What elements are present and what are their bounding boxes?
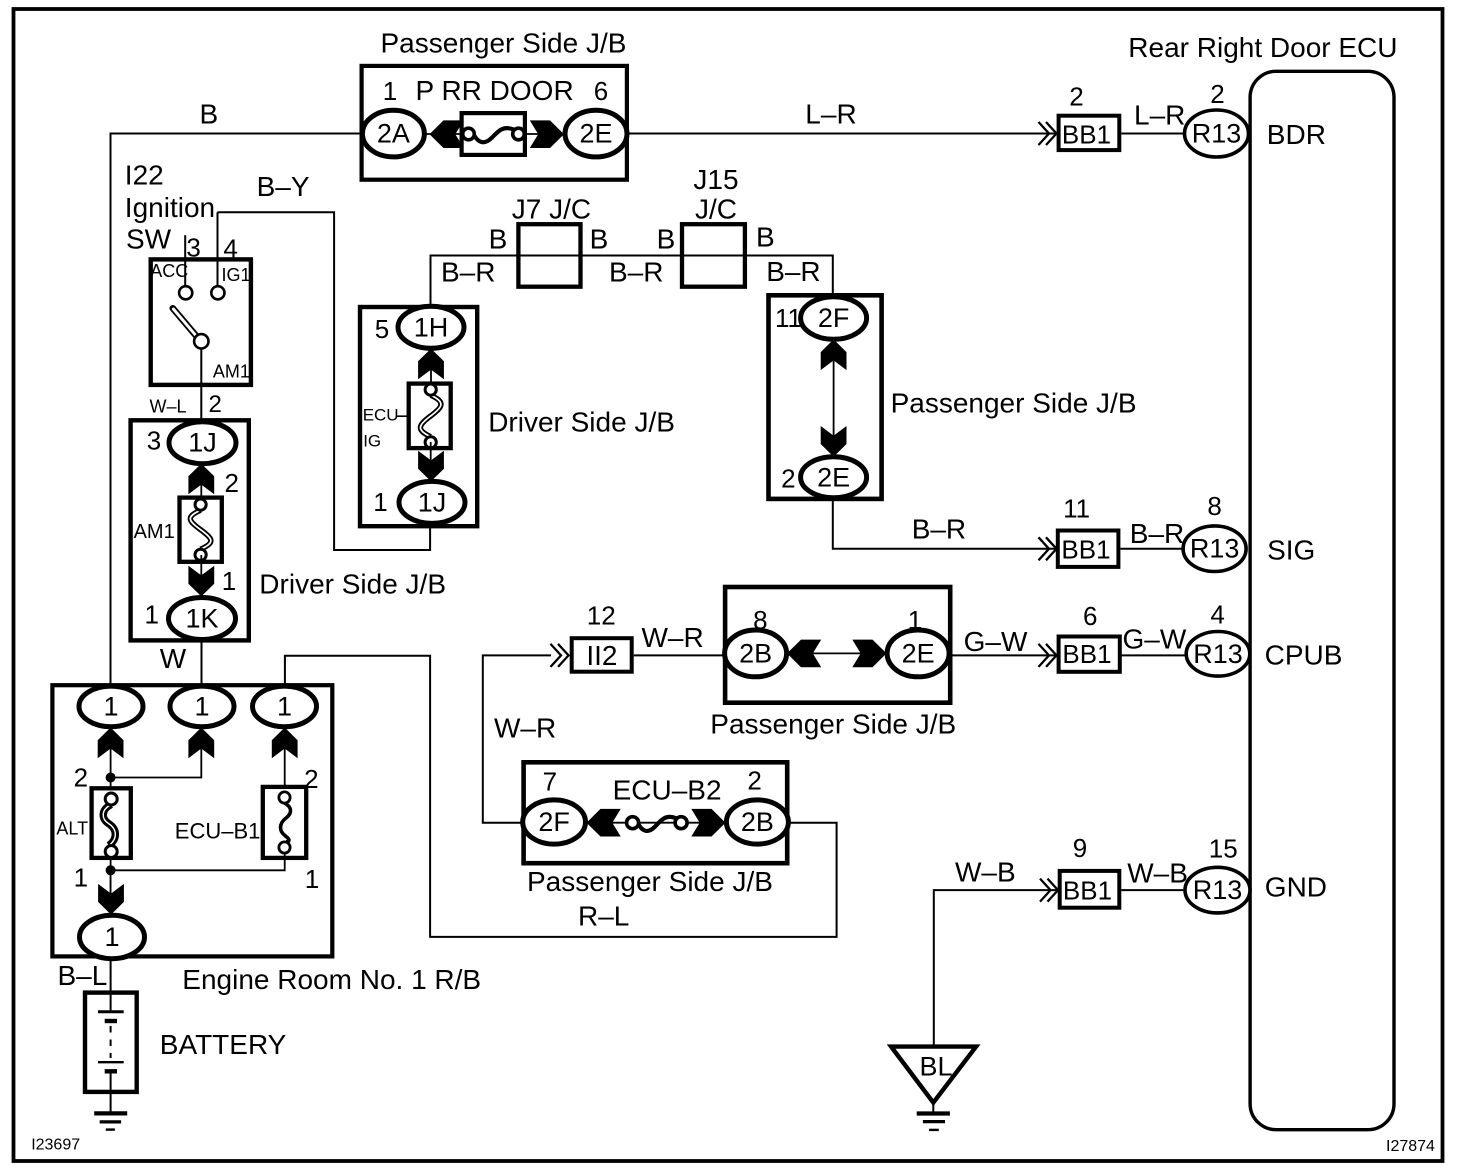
connector BB1 (GND row) [1060, 871, 1120, 908]
ground symbol (battery) [94, 1113, 127, 1129]
svg-text:B–R: B–R [766, 256, 820, 287]
svg-text:ACC: ACC [150, 261, 188, 281]
svg-text:II2: II2 [586, 640, 617, 671]
svg-text:ECU–: ECU– [363, 406, 409, 425]
svg-text:Rear Right Door ECU: Rear Right Door ECU [1128, 32, 1397, 63]
svg-text:2: 2 [209, 391, 222, 418]
wire ignition SW pin 3 stub [184, 235, 186, 286]
wire ECU-B1 bottom tap [111, 854, 285, 871]
svg-text:2E: 2E [902, 638, 935, 668]
connector 1 (battery feed) [80, 915, 145, 958]
svg-text:3: 3 [147, 426, 161, 456]
svg-text:AM1: AM1 [213, 362, 250, 382]
connector BB1 (CPUB row) [1059, 637, 1120, 672]
svg-text:IG1: IG1 [222, 265, 251, 285]
svg-text:8: 8 [1207, 491, 1221, 521]
connector R13 pin 2 (BDR) [1185, 110, 1249, 157]
svg-text:1: 1 [373, 487, 387, 517]
svg-text:2E: 2E [817, 462, 850, 492]
wire B / B-R main run (1H to J7 J/C, J15 J/C, 2F) [431, 256, 833, 307]
svg-text:W–B: W–B [955, 857, 1016, 888]
wire inside P RR DOOR fuse block [425, 133, 567, 135]
arrow to 2E (middle) [852, 640, 886, 668]
fuse P RR DOOR [462, 113, 525, 155]
connector 2E (middle) [887, 630, 949, 677]
svg-text:Ignition: Ignition [125, 192, 215, 223]
fuse ECU-IG [409, 384, 451, 449]
connector 1J (driver ECU-IG) [399, 481, 465, 523]
svg-text:11: 11 [775, 303, 802, 333]
svg-text:1J: 1J [418, 487, 447, 517]
arrow up to connector 1 (W) [188, 728, 214, 759]
svg-text:W–L: W–L [150, 396, 187, 416]
svg-text:Driver Side J/B: Driver Side J/B [259, 569, 446, 600]
svg-text:1: 1 [194, 691, 209, 721]
connector marker to BB1 pin 6 [1039, 644, 1057, 667]
svg-text:2: 2 [781, 464, 795, 494]
svg-text:BDR: BDR [1267, 119, 1326, 150]
svg-text:ECU–B1: ECU–B1 [175, 819, 261, 844]
svg-text:Passenger Side J/B: Passenger Side J/B [891, 388, 1137, 419]
arrow to 2B (ECU-B2) [691, 809, 725, 837]
wire G-W from BB1 to R13 pin 4 [1121, 654, 1185, 656]
svg-text:W: W [160, 643, 187, 674]
svg-text:G–W: G–W [964, 626, 1028, 657]
junction block Driver Side J/B (AM1) [131, 420, 249, 640]
svg-text:2: 2 [224, 468, 238, 498]
connector II2 [572, 638, 632, 672]
connector 2E (passenger vertical) [801, 457, 867, 498]
svg-text:12: 12 [587, 601, 616, 631]
wire ALT node to battery connector [110, 870, 112, 915]
svg-text:R13: R13 [1190, 534, 1240, 564]
junction block Passenger Side J/B (ECU-B2) [524, 762, 788, 863]
arrow down to 1K [188, 566, 214, 597]
svg-text:2E: 2E [579, 119, 612, 149]
svg-text:1H: 1H [414, 312, 449, 342]
connector 1H [398, 306, 464, 348]
svg-text:15: 15 [1209, 834, 1238, 864]
svg-text:Passenger Side J/B: Passenger Side J/B [710, 709, 956, 740]
svg-text:B–R: B–R [441, 257, 495, 288]
svg-text:B: B [200, 99, 219, 130]
svg-text:1: 1 [383, 76, 397, 106]
arrow up to 1J [188, 464, 214, 495]
svg-text:1: 1 [104, 922, 119, 952]
wire ignition SW pin 4 [217, 212, 219, 286]
arrow up to connector 1 (B) [98, 728, 124, 759]
svg-text:1: 1 [305, 864, 319, 894]
ignition SW pivot AM1 [194, 334, 208, 348]
arrow to 2F (ECU-B2) [587, 809, 621, 837]
wire inside Passenger Side J/B 2B-2E [787, 652, 886, 654]
connector 2E (top) [565, 110, 627, 157]
junction block Passenger Side J/B (2B-2E) [725, 587, 950, 703]
svg-text:B–Y: B–Y [257, 171, 310, 202]
svg-text:BB1: BB1 [1063, 876, 1112, 906]
arrow up to 2F [821, 339, 847, 370]
svg-text:4: 4 [1210, 600, 1224, 630]
svg-text:Engine Room No. 1 R/B: Engine Room No. 1 R/B [182, 964, 481, 995]
svg-text:2: 2 [1210, 79, 1224, 109]
wire W-L ignition AM1 to 1J [200, 349, 202, 422]
svg-text:B: B [590, 224, 609, 255]
arrow to 2B (middle) [787, 640, 821, 668]
svg-text:7: 7 [543, 767, 557, 797]
svg-text:B–R: B–R [912, 514, 966, 545]
junction connector J15 J/C [682, 224, 745, 287]
svg-text:J15: J15 [693, 164, 738, 195]
connector R13 pin 4 (CPUB) [1186, 632, 1250, 677]
wire W from 1K to Engine Room R/B [201, 640, 203, 687]
svg-text:R–L: R–L [578, 901, 629, 932]
svg-text:1J: 1J [188, 428, 217, 458]
arrow down to 1J (ECU-IG) [418, 451, 444, 482]
connector 1 (to R-L run) [253, 686, 317, 727]
wire B-Y from IG1 to Driver Side J/B 1J [218, 212, 431, 550]
wire ALT fuse top [110, 727, 112, 793]
svg-text:G–W: G–W [1123, 624, 1187, 655]
svg-text:2: 2 [1069, 81, 1083, 111]
wire W-R from II2 to 2B [634, 654, 725, 656]
wire ECU-B1 fuse top [284, 727, 286, 792]
wire W-B from BL ground to BB1 pin 9 [934, 890, 1058, 1046]
svg-text:J7 J/C: J7 J/C [512, 193, 591, 224]
wire W-R from 2F to II2 [483, 655, 551, 822]
svg-text:GND: GND [1265, 872, 1327, 903]
svg-text:1: 1 [103, 691, 118, 721]
wire B-R from 2E to BB1 pin 11 [833, 498, 1057, 549]
svg-text:J/C: J/C [695, 193, 737, 224]
connector 2F (ECU-B2) [523, 800, 586, 844]
svg-text:BL: BL [920, 1052, 953, 1082]
wire W-B from BB1 to R13 pin 15 [1121, 889, 1185, 891]
svg-text:1: 1 [222, 566, 236, 596]
svg-text:B: B [489, 224, 508, 255]
svg-text:5: 5 [375, 314, 389, 344]
svg-text:R13: R13 [1193, 875, 1243, 905]
wire fuse AM1 to 1K [200, 555, 202, 597]
svg-text:1: 1 [144, 600, 158, 630]
svg-text:B: B [756, 222, 775, 253]
svg-text:W–R: W–R [642, 622, 704, 653]
svg-text:BB1: BB1 [1062, 639, 1111, 669]
connector 2B (middle) [725, 630, 787, 677]
svg-text:B–R: B–R [1130, 518, 1184, 549]
arrow up to 1H [418, 349, 444, 380]
svg-text:BB1: BB1 [1061, 534, 1110, 564]
wire L-R from 2E to BB1 [628, 133, 1057, 135]
fuse ECU-B1 [263, 787, 306, 858]
battery [85, 993, 137, 1112]
svg-text:6: 6 [594, 76, 608, 106]
ECU body Rear Right Door ECU [1250, 71, 1394, 1129]
svg-text:Driver Side J/B: Driver Side J/B [488, 407, 675, 438]
svg-text:I22: I22 [125, 160, 164, 191]
connector marker to BB1 pin 11 [1039, 537, 1057, 560]
svg-text:SW: SW [126, 224, 172, 255]
connector R13 pin 8 (SIG) [1183, 526, 1246, 572]
svg-text:W–R: W–R [494, 713, 556, 744]
junction connector J7 J/C [518, 224, 580, 287]
ignition SW contact ACC [179, 286, 192, 299]
switch I22 Ignition SW body [151, 259, 251, 385]
svg-text:AM1: AM1 [134, 521, 175, 543]
connector 1K [169, 598, 236, 640]
junction node (ALT bottom) [106, 865, 116, 875]
svg-text:I23697: I23697 [31, 1137, 80, 1154]
svg-text:R13: R13 [1193, 639, 1243, 669]
svg-text:BATTERY: BATTERY [160, 1029, 287, 1060]
junction node (ALT top) [106, 773, 116, 783]
fuse AM1 [180, 498, 222, 562]
wire 1H to fuse ECU-IG [430, 348, 432, 390]
arrow to 2A [430, 120, 464, 148]
svg-text:B: B [657, 224, 676, 255]
svg-text:2: 2 [747, 766, 761, 796]
svg-text:Passenger Side J/B: Passenger Side J/B [527, 866, 773, 897]
connector marker to BB1 pin 2 [1039, 122, 1057, 145]
junction block Passenger Side J/B (2F-2E) [769, 295, 882, 499]
svg-text:W–B: W–B [1127, 858, 1188, 889]
fuse ALT [92, 788, 131, 858]
connector 2F (passenger) [801, 297, 867, 340]
svg-text:ALT: ALT [56, 819, 88, 839]
connector 1 (to B wire) [79, 686, 143, 727]
connector 1 (to W wire) [170, 686, 234, 727]
svg-text:2F: 2F [538, 807, 570, 837]
arrow down to 2E (passenger) [821, 426, 847, 457]
svg-text:CPUB: CPUB [1265, 640, 1343, 671]
svg-text:11: 11 [1063, 494, 1090, 524]
svg-text:IG: IG [363, 432, 381, 451]
connector 2A [362, 110, 424, 157]
svg-text:R13: R13 [1192, 119, 1242, 149]
connector BB1 (SIG row) [1058, 531, 1119, 567]
leader line ECU-IG label [396, 415, 409, 417]
ignition SW lever [173, 308, 198, 338]
fuse ECU-B2 [627, 817, 688, 831]
svg-text:I27874: I27874 [1386, 1138, 1435, 1155]
connector 2B (ECU-B2) [726, 800, 788, 844]
svg-text:L–R: L–R [1134, 100, 1185, 131]
svg-text:P RR DOOR: P RR DOOR [416, 75, 574, 106]
connector BB1 (BDR row) [1059, 116, 1120, 150]
connector 1J (driver AM1) [169, 422, 236, 464]
connector marker to BB1 pin 9 [1040, 879, 1058, 902]
wire feed Engine Room to 2B (R-L run) [285, 656, 837, 937]
svg-text:6: 6 [1083, 601, 1097, 631]
svg-text:1K: 1K [185, 604, 218, 634]
wire inside Passenger Side J/B ECU-B2 [586, 822, 727, 824]
wire G-W from 2E to BB1 pin 6 [949, 654, 1057, 656]
ground symbol (BL) [917, 1114, 950, 1130]
ground point BL [891, 1047, 976, 1103]
svg-text:B–R: B–R [609, 257, 663, 288]
ignition SW contact IG1 [211, 286, 224, 299]
svg-text:2A: 2A [377, 119, 410, 149]
arrow to 2E [530, 120, 564, 148]
junction block Driver Side J/B (ECU-IG) [360, 307, 477, 526]
svg-text:Passenger Side J/B: Passenger Side J/B [381, 28, 627, 59]
arrow down to connector 1 (battery) [98, 884, 124, 915]
wire BL to ground [932, 1103, 934, 1112]
svg-text:2B: 2B [739, 638, 772, 668]
wire 1J to fuse AM1 [200, 464, 202, 505]
wire B (battery feed to 2A and Engine Room R/B) [111, 134, 362, 687]
connector marker to II2 pin 12 [551, 644, 569, 667]
svg-text:SIG: SIG [1267, 535, 1315, 566]
svg-text:2B: 2B [741, 807, 774, 837]
junction block Passenger Side J/B (P RR DOOR) [362, 66, 627, 180]
connector R13 pin 15 (GND) [1185, 867, 1250, 913]
wire L-R from BB1 to R13 [1121, 133, 1184, 135]
svg-text:1: 1 [74, 863, 88, 893]
svg-text:ECU–B2: ECU–B2 [613, 775, 722, 806]
wire tap to W connector [111, 727, 202, 778]
arrow up to connector 1 (R-L) [272, 728, 298, 759]
wire inside Passenger Side J/B 2F-2E [833, 340, 835, 457]
svg-text:9: 9 [1073, 833, 1087, 863]
svg-text:2F: 2F [818, 303, 850, 333]
relay block Engine Room No. 1 R/B [52, 685, 332, 956]
svg-text:2: 2 [74, 763, 88, 793]
wire fuse ECU-IG to 1J [430, 442, 432, 482]
wire B-L connector 1 to battery [110, 959, 112, 1011]
svg-text:B–L: B–L [58, 960, 108, 991]
svg-text:L–R: L–R [805, 99, 856, 130]
wire B-R from BB1 to R13 pin 8 [1121, 548, 1185, 550]
wire ALT fuse bottom to battery connector [110, 858, 112, 917]
svg-text:1: 1 [277, 691, 292, 721]
svg-text:BB1: BB1 [1062, 119, 1111, 149]
